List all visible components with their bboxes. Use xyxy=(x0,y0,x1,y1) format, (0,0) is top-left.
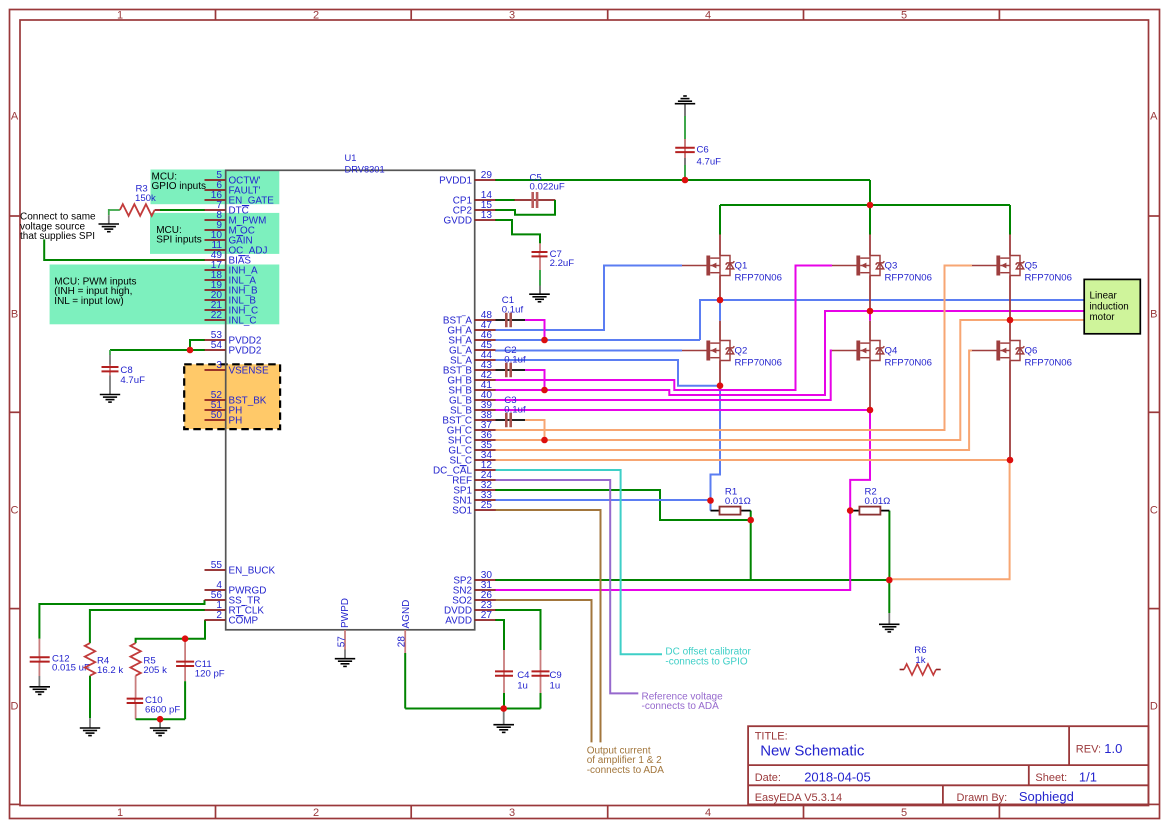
U1 pin 17 INH_A xyxy=(205,269,226,271)
junction SL_A/Q2 source xyxy=(717,382,724,389)
U1 pin 20 INL_B xyxy=(205,299,226,301)
svg-text:1u: 1u xyxy=(517,681,528,692)
svg-text:55: 55 xyxy=(211,560,223,571)
svg-text:Sophiegd: Sophiegd xyxy=(1019,789,1074,804)
svg-text:C4: C4 xyxy=(517,670,530,681)
svg-text:27: 27 xyxy=(481,610,493,621)
svg-text:New Schematic: New Schematic xyxy=(760,743,865,760)
svg-text:TITLE:: TITLE: xyxy=(755,731,788,743)
U1 pin 50 PH xyxy=(205,419,226,421)
resistor R5 205k xyxy=(130,643,140,676)
U1 pin 15 CP2 xyxy=(475,209,496,211)
svg-text:AVDD: AVDD xyxy=(445,616,472,627)
wire C2 to SH_B xyxy=(496,369,526,371)
svg-text:RFP70N06: RFP70N06 xyxy=(1025,357,1072,368)
U1 pin 2 COMP xyxy=(205,619,226,621)
U1 pin 35 GL‾C xyxy=(475,449,496,451)
svg-text:U1: U1 xyxy=(345,153,357,163)
svg-text:COMP: COMP xyxy=(229,616,259,627)
wire R4 to ground xyxy=(89,676,91,719)
svg-text:D: D xyxy=(11,701,19,713)
ground (R3) xyxy=(99,224,120,232)
ground (C4/C9/AGND) xyxy=(493,725,514,733)
svg-text:5: 5 xyxy=(901,807,907,819)
svg-text:Q5: Q5 xyxy=(1025,261,1038,272)
transistor Q5 RFP70N06 N-MOSFET xyxy=(972,256,1024,276)
junction C10/C11 gnd xyxy=(157,716,164,723)
wire C1 to SH_A xyxy=(496,319,526,321)
wire SN2 (magenta) xyxy=(495,511,850,590)
wire CP2 to C5 xyxy=(495,200,555,215)
wire C10 to ground bus xyxy=(135,703,137,719)
svg-text:B: B xyxy=(1150,309,1157,321)
svg-text:PH: PH xyxy=(229,416,243,427)
wire Q1 drain stub xyxy=(719,235,721,256)
ground (PWPD pin57) xyxy=(335,659,355,667)
annotation box: MCU SPI inputs xyxy=(150,213,279,254)
U1 pin 36 SH‾C xyxy=(475,439,496,441)
wire DVDD to C9 xyxy=(495,610,541,650)
wire Q2 source to R1/SN1 (blue) xyxy=(711,386,721,511)
svg-text:4.7uF: 4.7uF xyxy=(120,375,145,386)
wire RT_CLK to R4 xyxy=(90,610,205,643)
wire C7 to ground xyxy=(539,256,541,270)
wire phase B to motor (magenta) xyxy=(870,310,1084,312)
svg-text:D: D xyxy=(1150,701,1158,713)
U1 pin 51 PH xyxy=(205,409,226,411)
svg-text:0.1uf: 0.1uf xyxy=(504,405,526,416)
svg-text:EasyEDA V5.3.14: EasyEDA V5.3.14 xyxy=(755,792,842,804)
svg-text:2: 2 xyxy=(313,807,319,819)
U1 pin 46 SH‾A xyxy=(475,339,496,341)
capacitor C9 1u xyxy=(532,670,562,692)
junction phase B xyxy=(867,308,874,315)
svg-text:AGND: AGND xyxy=(401,600,412,629)
U1 pin 37 GH‾C xyxy=(475,429,496,431)
svg-text:PVDD1: PVDD1 xyxy=(439,176,472,187)
wire Q2 drain stub xyxy=(719,321,721,341)
capacitor C3 0.1uf xyxy=(504,395,526,427)
svg-text:that supplies SPI: that supplies SPI xyxy=(20,231,95,242)
capacitor C1 0.1uf xyxy=(502,295,524,327)
junction SN2/R2 xyxy=(847,507,854,514)
wire C8 xyxy=(109,350,111,355)
svg-text:16.2 k: 16.2 k xyxy=(97,665,123,676)
resistor R6 1k (floating) xyxy=(900,669,904,671)
svg-text:2018-04-05: 2018-04-05 xyxy=(804,770,871,785)
wire C3 to SH_C xyxy=(496,419,526,421)
junction phase A xyxy=(717,297,724,304)
junction COMP/C11 xyxy=(182,635,189,642)
svg-text:C6: C6 xyxy=(697,144,709,155)
svg-text:SO1: SO1 xyxy=(452,506,472,517)
svg-text:-connects to ADA: -connects to ADA xyxy=(587,765,665,776)
wire SL_A (blue) xyxy=(495,360,720,386)
wire BIAS (green) xyxy=(44,239,205,260)
wire net PVDD2 (green) xyxy=(190,340,205,350)
junction SL_C/Q6 source xyxy=(1007,457,1014,464)
svg-text:EN_BUCK: EN_BUCK xyxy=(229,566,276,577)
svg-text:REV:: REV: xyxy=(1076,744,1101,756)
capacitor C5 0.022uF xyxy=(530,172,565,208)
junction PVDD2 xyxy=(187,347,194,354)
wire Q4 source to R2 (magenta) xyxy=(850,410,870,511)
svg-text:0.01Ω: 0.01Ω xyxy=(865,496,891,507)
svg-text:0.01Ω: 0.01Ω xyxy=(725,496,751,507)
svg-text:0.1uf: 0.1uf xyxy=(502,305,524,316)
svg-text:3: 3 xyxy=(509,807,515,819)
svg-text:A: A xyxy=(11,111,19,123)
svg-text:4.7uF: 4.7uF xyxy=(697,156,722,167)
svg-text:1: 1 xyxy=(117,10,123,22)
U1 pin 13 GVDD xyxy=(475,219,496,221)
overbar BIAS xyxy=(238,255,245,257)
wire SL_C (orange) xyxy=(495,460,1010,579)
wire GH_A (blue) xyxy=(495,266,682,331)
svg-text:RFP70N06: RFP70N06 xyxy=(735,357,782,368)
wire Q2 source stub xyxy=(719,361,721,386)
U1 pin 3 VSENSE xyxy=(205,369,226,371)
svg-text:1.0: 1.0 xyxy=(1104,741,1122,756)
wire R2 right leg xyxy=(888,511,890,580)
wire R1 right to SP2 bus xyxy=(750,511,752,580)
junction PVDD1/C6 xyxy=(682,177,689,184)
U1 pin 42 GH‾B xyxy=(475,379,496,381)
wire CP1 to C5 xyxy=(495,199,515,201)
U1 pin 45 GL‾A xyxy=(475,349,496,351)
U1 pin 27 AVDD xyxy=(475,619,496,621)
capacitor C8 4.7uF xyxy=(102,365,146,386)
U1 pin 10 GAIN xyxy=(205,239,226,241)
svg-text:Q6: Q6 xyxy=(1025,346,1038,357)
ground (C6 top) xyxy=(675,96,695,104)
U1 pin 43 BST‾B xyxy=(475,369,496,371)
junction C1/SH_A xyxy=(541,337,548,344)
wire REF (purple) xyxy=(495,480,638,693)
svg-text:C: C xyxy=(11,505,19,517)
overbar DC_CAL xyxy=(460,465,467,467)
U1 pin 44 SL‾A xyxy=(475,359,496,361)
U1 pin 54 PVDD2 xyxy=(205,349,226,351)
U1 pin 9 M‾OC xyxy=(205,229,226,231)
svg-text:1k: 1k xyxy=(915,655,925,666)
svg-text:29: 29 xyxy=(481,170,493,181)
U1 pin 31 SN2 xyxy=(475,589,496,591)
svg-text:57: 57 xyxy=(337,636,348,648)
U1 pin 5 OCTW' xyxy=(205,179,226,181)
wire Q4 source stub xyxy=(869,361,871,411)
wire GL_B (orchid) xyxy=(495,351,832,401)
U1 pin 47 GH‾A xyxy=(475,329,496,331)
U1 pin 8 M_PWM xyxy=(205,219,226,221)
svg-text:150k: 150k xyxy=(135,193,156,204)
svg-text:PWPD: PWPD xyxy=(340,598,351,628)
junction C4/AGND xyxy=(500,705,507,712)
load: Linear induction motor xyxy=(1084,279,1140,333)
svg-text:RFP70N06: RFP70N06 xyxy=(1025,272,1072,283)
IC U1 outline xyxy=(226,170,475,630)
U1 pin 33 SN1 xyxy=(475,499,496,501)
svg-text:1: 1 xyxy=(117,807,123,819)
annotation box: MCU GPIO inputs xyxy=(151,170,280,205)
svg-text:induction: induction xyxy=(1090,301,1129,312)
svg-text:Linear: Linear xyxy=(1090,291,1118,302)
wire GH_C (orange) xyxy=(495,266,972,431)
resistor R1 0.01ohm shunt xyxy=(711,510,720,512)
U1 pin 39 SL‾B xyxy=(475,409,496,411)
wire GL_A (blue) xyxy=(495,350,682,352)
svg-text:1/1: 1/1 xyxy=(1079,770,1097,785)
wire R3 left to ground xyxy=(109,209,120,211)
svg-text:Drawn By:: Drawn By: xyxy=(957,792,1008,804)
wire AGND bus xyxy=(404,653,406,709)
svg-text:GVDD: GVDD xyxy=(443,216,472,227)
svg-text:3: 3 xyxy=(509,10,515,22)
junction C2/SH_B xyxy=(541,387,548,394)
svg-text:25: 25 xyxy=(481,500,493,511)
svg-text:2.2uF: 2.2uF xyxy=(550,258,575,269)
capacitor C2 0.1uf xyxy=(504,345,526,377)
junction SL_B/Q4 source xyxy=(867,407,874,414)
ground (C12) xyxy=(30,687,51,695)
ground (R4) xyxy=(80,728,100,736)
wire net SP2/GND bus (green) xyxy=(495,579,889,581)
transistor Q1 RFP70N06 N-MOSFET xyxy=(682,256,734,276)
capacitor C10 6600 pF xyxy=(127,695,181,715)
U1 pin 24 REF xyxy=(475,479,496,481)
ground (SP2/R2) xyxy=(879,624,900,632)
svg-text:4: 4 xyxy=(705,807,711,819)
U1 pin 4 PWRGD xyxy=(205,589,226,591)
overbar DTC xyxy=(242,205,249,207)
U1 pin 26 SO2 xyxy=(475,599,496,601)
overbar COMP xyxy=(236,615,244,617)
svg-text:DRV8301: DRV8301 xyxy=(345,165,385,175)
svg-text:4: 4 xyxy=(705,10,711,22)
IC U1 DRV8301 body xyxy=(226,170,475,630)
U1 pin 18 INL_A xyxy=(205,279,226,281)
capacitor C6 4.7uF xyxy=(675,144,721,167)
U1 pin 7 DTC xyxy=(205,209,226,211)
svg-text:A: A xyxy=(1150,111,1158,123)
svg-text:Q3: Q3 xyxy=(885,261,898,272)
U1 pin 23 DVDD xyxy=(475,609,496,611)
svg-text:28: 28 xyxy=(396,636,407,648)
svg-text:6600 pF: 6600 pF xyxy=(145,705,180,716)
wire GH_B (orchid) xyxy=(495,266,832,391)
U1 pin 21 INH_C xyxy=(205,309,226,311)
U1 pin 56 SS_TR xyxy=(205,599,226,601)
junction phase C xyxy=(1007,317,1014,324)
svg-text:Sheet:: Sheet: xyxy=(1035,772,1067,784)
U1 pin 22 INL_C xyxy=(205,319,226,321)
svg-text:50: 50 xyxy=(211,410,223,421)
wire Q3 drain stub xyxy=(869,235,871,256)
junction SP1/R1 xyxy=(747,517,754,524)
svg-text:0.1uf: 0.1uf xyxy=(504,355,526,366)
wire SN1 (blue) xyxy=(495,499,711,501)
ground (C7) xyxy=(529,294,550,302)
capacitor C7 2.2uF xyxy=(532,249,575,269)
wire C11/C10 ground bus xyxy=(184,681,186,719)
svg-text:13: 13 xyxy=(481,210,493,221)
svg-text:54: 54 xyxy=(211,340,223,351)
transistor Q6 RFP70N06 N-MOSFET xyxy=(972,341,1024,361)
wire C11 leads xyxy=(184,639,186,662)
svg-text:Q1: Q1 xyxy=(735,261,748,272)
svg-text:1u: 1u xyxy=(550,681,561,692)
U1 pin 55 EN_BUCK xyxy=(205,569,226,571)
svg-text:PVDD2: PVDD2 xyxy=(229,346,262,357)
wire C6 to PVDD1 xyxy=(684,165,686,180)
wire AVDD to C4 xyxy=(495,620,504,650)
U1 pin 12 DC_CAL xyxy=(475,469,496,471)
U1 pin 52 BST_BK xyxy=(205,399,226,401)
junction SN1/R1 xyxy=(707,497,714,504)
svg-text:-connects to ADA: -connects to ADA xyxy=(642,701,720,712)
wire SO2 (dark yellow) xyxy=(495,600,592,742)
junction SP2/GND xyxy=(886,577,893,584)
U1 pin 19 INH_B xyxy=(205,289,226,291)
wire DC_CAL (cyan) xyxy=(495,470,662,654)
resistor R2 0.01ohm shunt xyxy=(850,510,859,512)
svg-text:120 pF: 120 pF xyxy=(195,668,225,679)
U1 pin 32 SP1 xyxy=(475,489,496,491)
pin 28 AGND stub xyxy=(404,630,406,653)
svg-text:2: 2 xyxy=(313,10,319,22)
overbar GAIN xyxy=(236,235,243,237)
capacitor C4 1u xyxy=(495,670,530,692)
svg-text:GPIO inputs: GPIO inputs xyxy=(152,181,206,192)
wire Q1 source to phase A xyxy=(719,276,721,301)
wire C4/C9 to ground bus xyxy=(503,676,505,693)
U1 pin 14 CP1 xyxy=(475,199,496,201)
svg-text:22: 22 xyxy=(211,310,223,321)
svg-text:-connects to GPIO: -connects to GPIO xyxy=(665,656,747,667)
svg-text:INL_C: INL_C xyxy=(229,316,257,327)
U1 pin 41 SH‾B xyxy=(475,389,496,391)
wire SH_B / phase B link (orchid) xyxy=(495,311,870,395)
U1 pin 11 OC_ADJ xyxy=(205,249,226,251)
transistor Q4 RFP70N06 N-MOSFET xyxy=(832,341,884,361)
wire R5 to C10 xyxy=(135,676,137,699)
svg-text:VSENSE: VSENSE xyxy=(229,366,269,377)
svg-text:motor: motor xyxy=(1090,312,1116,323)
annotation box: MCU PWM inputs xyxy=(50,265,280,325)
svg-text:3: 3 xyxy=(216,360,222,371)
wire R3 to DTC xyxy=(155,209,160,211)
capacitor C11 120 pF xyxy=(176,659,225,679)
svg-text:Q2: Q2 xyxy=(735,346,748,357)
svg-text:C9: C9 xyxy=(550,670,562,681)
svg-text:INL = input low): INL = input low) xyxy=(54,296,123,307)
title block xyxy=(748,726,1148,804)
wire Q4 drain stub xyxy=(869,321,871,341)
wire SH_A / phase A (blue) xyxy=(495,339,700,341)
U1 pin 49 BIAS xyxy=(205,259,226,261)
svg-text:B: B xyxy=(11,309,18,321)
junction PVDD bus xyxy=(867,202,874,209)
svg-text:SPI inputs: SPI inputs xyxy=(156,235,202,246)
wire GVDD to C7 xyxy=(495,220,540,243)
svg-text:2: 2 xyxy=(216,610,222,621)
wire COMP to R5/C11 xyxy=(136,620,205,643)
junction C3/SH_C xyxy=(541,437,548,444)
U1 pin 48 BST‾A xyxy=(475,319,496,321)
resistor R3 150k xyxy=(120,204,155,216)
U1 pin 38 BST‾C xyxy=(475,419,496,421)
U1 pin 1 RT‾CLK xyxy=(205,609,226,611)
U1 pin 6 FAULT' xyxy=(205,189,226,191)
wire Q6 drain stub xyxy=(1009,321,1011,341)
svg-text:Date:: Date: xyxy=(755,772,781,784)
U1 pin 29 PVDD1 xyxy=(475,179,496,181)
wire Q3 source to phase B xyxy=(869,276,871,312)
transistor Q3 RFP70N06 N-MOSFET xyxy=(832,256,884,276)
ground (C8) xyxy=(100,395,120,403)
svg-text:205 k: 205 k xyxy=(143,665,167,676)
wire SP1 (green) xyxy=(495,490,751,520)
svg-text:RFP70N06: RFP70N06 xyxy=(885,357,932,368)
svg-text:Q4: Q4 xyxy=(885,346,898,357)
U1 pin 53 PVDD2 xyxy=(205,339,226,341)
wire SO1 (dark yellow) xyxy=(495,510,601,742)
svg-text:5: 5 xyxy=(901,10,907,22)
resistor R4 16.2k xyxy=(85,643,95,676)
annotation box: VSENSE/BST_BK/PH dashed orange xyxy=(184,364,280,429)
ground (C10/C11) xyxy=(150,728,171,736)
svg-text:0.022uF: 0.022uF xyxy=(530,182,565,193)
capacitor C12 0.015 uF xyxy=(30,653,90,673)
U1 pin 30 SP2 xyxy=(475,579,496,581)
transistor Q2 RFP70N06 N-MOSFET xyxy=(682,341,734,361)
wire SL_B (magenta) xyxy=(495,409,870,411)
pin 57 PWPD stub to ground xyxy=(344,630,346,650)
U1 pin 16 EN_GATE xyxy=(205,199,226,201)
wire GL_C (orange) xyxy=(495,351,972,451)
wire SS_TR to C12 xyxy=(39,600,204,639)
U1 pin 40 GL‾B xyxy=(475,399,496,401)
svg-text:C: C xyxy=(1150,505,1158,517)
U1 pin 34 SL‾C xyxy=(475,459,496,461)
wire Q5 drain stub xyxy=(1009,235,1011,256)
svg-text:RFP70N06: RFP70N06 xyxy=(885,272,932,283)
svg-text:RFP70N06: RFP70N06 xyxy=(735,272,782,283)
wire Q5 source to phase C xyxy=(1009,276,1011,321)
wire Q6 source stub xyxy=(1009,361,1011,461)
wire net PVDD1 (green) xyxy=(495,179,870,181)
wire SH_C / phase C (orange) xyxy=(495,320,1084,440)
U1 pin 25 SO1 xyxy=(475,509,496,511)
